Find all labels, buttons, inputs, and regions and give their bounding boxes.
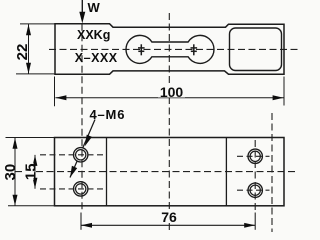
plan view step edge right [225, 138, 227, 206]
dim 22 top extension line [20, 23, 55, 25]
dim 15 lower arrowhead [33, 178, 38, 189]
side view dumbbell cutout [126, 35, 214, 63]
dim 100 dimension line [55, 97, 283, 99]
label 76 mask [160, 210, 179, 223]
center mark in left cutout circle [138, 44, 145, 55]
svg-text:15: 15 [22, 163, 39, 180]
centerline bottom hole row left [40, 188, 103, 190]
svg-text:76: 76 [161, 209, 177, 225]
dim 22 dimension line [28, 24, 30, 74]
hole top-left outer circle [74, 148, 88, 162]
dim 15 dimension line [34, 155, 36, 189]
vertical centerline right block [271, 113, 273, 232]
dim 100 left arrowhead [55, 95, 66, 100]
hole top-right inner circle [250, 151, 260, 161]
leader line for 4-M6 label [70, 120, 95, 178]
load arrow W head [79, 12, 85, 24]
svg-text:XXKg: XXKg [77, 28, 110, 42]
dim 30 bottom extension line [8, 205, 55, 207]
dim 76 dimension line [81, 224, 255, 226]
hole bottom-left inner circle [76, 184, 86, 194]
side view rounded end block [230, 28, 282, 71]
hole top-left inner circle [76, 150, 86, 160]
horizontal centerline of plan view [5, 171, 298, 173]
leader upper arrowhead [85, 135, 92, 147]
label 15 mask [23, 163, 34, 180]
vertical centerline through left holes / load axis [81, 24, 83, 213]
dim 76 right arrowhead [244, 223, 255, 228]
vertical centerline middle of cutout [168, 13, 170, 231]
dim 15 upper arrowhead [33, 155, 38, 166]
svg-text:30: 30 [2, 164, 19, 181]
hole top-right outer circle [248, 149, 262, 163]
dim 100 right arrowhead [273, 95, 284, 100]
load arrow W shaft [81, 0, 83, 14]
hole bottom-right outer circle [248, 183, 262, 197]
svg-text:X–XXX: X–XXX [75, 51, 118, 65]
side view load-cell body outline [55, 24, 284, 75]
centerline bottom hole row right [237, 189, 270, 191]
centerline top hole row left [40, 154, 103, 156]
hole bottom-left outer circle [74, 182, 88, 196]
svg-text:4–M6: 4–M6 [90, 107, 126, 122]
dim 30 top extension line [6, 137, 55, 139]
center mark in right cutout circle [191, 44, 198, 55]
dim 30 upper arrowhead [13, 138, 18, 149]
dim 22 lower arrowhead [26, 63, 31, 74]
label 100 mask [158, 84, 185, 98]
label 30 mask [3, 163, 15, 180]
dim 76 right extension tick [254, 213, 256, 230]
dim 100 right extension line [283, 77, 285, 106]
svg-text:22: 22 [14, 44, 31, 61]
dim 22 upper arrowhead [26, 24, 31, 35]
hole bottom-right inner circle [250, 185, 260, 195]
svg-text:W: W [88, 0, 101, 15]
dim 76 left extension tick [80, 213, 82, 230]
dim 100 left extension line [54, 77, 56, 107]
horizontal centerline of side view [49, 48, 298, 50]
vertical centerline through right holes [254, 140, 256, 213]
leader lower arrowhead [70, 166, 77, 178]
svg-text:100: 100 [160, 84, 184, 100]
dim 22 bottom extension line [16, 73, 55, 75]
dim 30 lower arrowhead [13, 195, 18, 206]
dim 76 left arrowhead [81, 223, 92, 228]
plan view body rectangle [55, 138, 285, 206]
plan view step edge left [106, 138, 108, 206]
centerline top hole row right [237, 155, 270, 157]
dim 30 dimension line [14, 138, 16, 206]
